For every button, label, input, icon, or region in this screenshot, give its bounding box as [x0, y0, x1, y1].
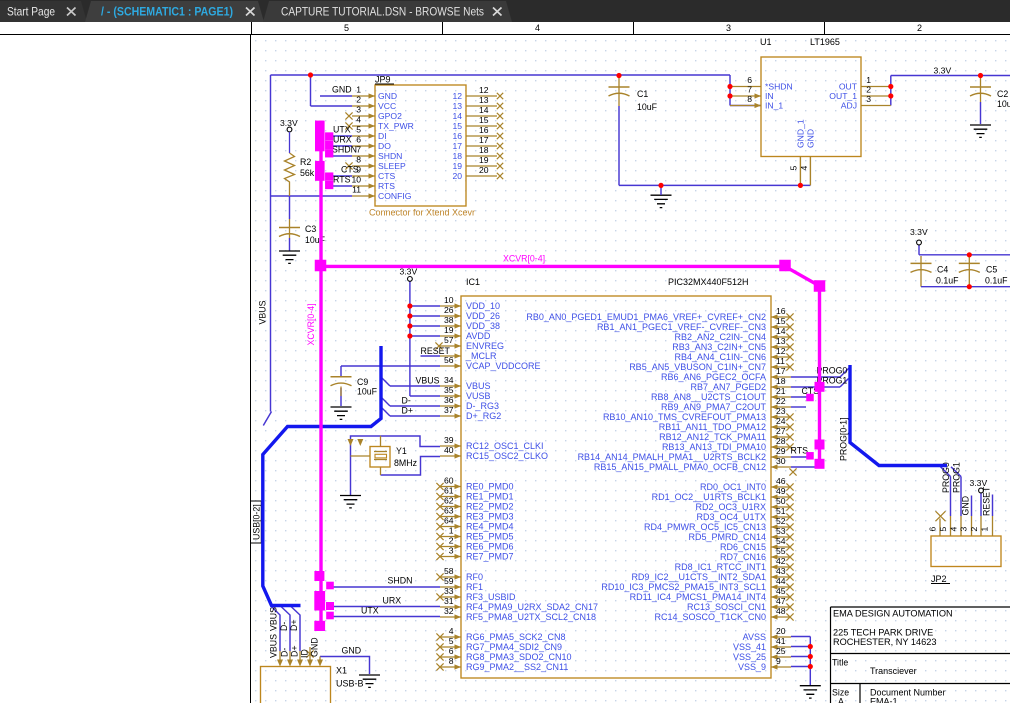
svg-text:IN: IN: [765, 91, 774, 101]
svg-text:URX: URX: [333, 135, 352, 145]
svg-text:JP9: JP9: [375, 75, 391, 85]
svg-text:LT1965: LT1965: [810, 37, 840, 47]
svg-text:RB3_AN3_C2IN+_CN5: RB3_AN3_C2IN+_CN5: [672, 342, 766, 352]
svg-text:RC14_SOSCO_T1CK_CN0: RC14_SOSCO_T1CK_CN0: [654, 612, 766, 622]
svg-text:RC15_OSC2_CLKO: RC15_OSC2_CLKO: [466, 451, 548, 461]
svg-text:RD10_IC3_PMCS2_PMA15_INT3_SCL1: RD10_IC3_PMCS2_PMA15_INT3_SCL1: [601, 582, 766, 592]
svg-text:RC13_SOSCI_CN1: RC13_SOSCI_CN1: [687, 602, 766, 612]
svg-text:DI: DI: [378, 131, 387, 141]
svg-text:12: 12: [776, 346, 786, 356]
svg-text:SHDN: SHDN: [378, 151, 402, 161]
svg-text:C9: C9: [357, 377, 368, 387]
svg-text:USB[0-2]: USB[0-2]: [252, 504, 262, 540]
svg-text:43: 43: [776, 566, 786, 576]
svg-text:RD2_OC3_U1RX: RD2_OC3_U1RX: [695, 502, 766, 512]
svg-text:30: 30: [776, 456, 786, 466]
svg-text:RB12_AN12_TCK_PMA11: RB12_AN12_TCK_PMA11: [659, 432, 766, 442]
svg-text:GND: GND: [332, 85, 352, 95]
svg-text:D-: D-: [280, 648, 290, 657]
svg-text:16: 16: [479, 125, 489, 135]
svg-text:RE4_PMD4: RE4_PMD4: [466, 522, 514, 532]
svg-text:RG6_PMA5_SCK2_CN8: RG6_PMA5_SCK2_CN8: [466, 632, 566, 642]
svg-text:9: 9: [776, 656, 781, 666]
svg-text:RB14_AN14_PMALH_PMA1__U2RTS_BC: RB14_AN14_PMALH_PMA1__U2RTS_BCLK2: [578, 452, 766, 462]
svg-text:33: 33: [444, 586, 454, 596]
svg-text:PROG1: PROG1: [952, 462, 962, 493]
svg-text:/ - (SCHEMATIC1 : PAGE1): / - (SCHEMATIC1 : PAGE1): [101, 5, 233, 19]
svg-text:URX: URX: [383, 596, 402, 606]
svg-text:7: 7: [747, 85, 752, 95]
svg-text:46: 46: [776, 476, 786, 486]
svg-text:15: 15: [452, 121, 462, 131]
svg-text:60: 60: [444, 476, 454, 486]
svg-text:SHDN: SHDN: [388, 576, 413, 586]
svg-text:13: 13: [452, 101, 462, 111]
svg-text:CONFIG: CONFIG: [378, 191, 412, 201]
svg-text:VDD_10: VDD_10: [466, 301, 500, 311]
svg-text:17: 17: [479, 135, 489, 145]
svg-text:39: 39: [444, 435, 454, 445]
svg-text:RF1: RF1: [466, 582, 483, 592]
svg-text:RE3_PMD3: RE3_PMD3: [466, 512, 514, 522]
svg-text:61: 61: [444, 486, 454, 496]
svg-text:D+: D+: [402, 406, 414, 416]
svg-text:18: 18: [776, 376, 786, 386]
svg-text:VCC: VCC: [378, 101, 396, 111]
svg-text:RD0_OC1_INT0: RD0_OC1_INT0: [700, 482, 766, 492]
svg-text:RF3_USBID: RF3_USBID: [466, 592, 516, 602]
svg-text:27: 27: [776, 426, 786, 436]
svg-text:0.1uF: 0.1uF: [936, 276, 959, 286]
svg-text:35: 35: [444, 385, 454, 395]
svg-text:CAPTURE TUTORIAL.DSN - BROWSE: CAPTURE TUTORIAL.DSN - BROWSE Nets: [281, 5, 484, 19]
svg-text:GPO2: GPO2: [378, 111, 402, 121]
svg-text:RD6_CN15: RD6_CN15: [720, 542, 766, 552]
svg-text:2: 2: [449, 536, 454, 546]
svg-text:8: 8: [356, 155, 361, 165]
svg-text:GND: GND: [378, 91, 397, 101]
svg-text:D-: D-: [402, 396, 411, 406]
svg-text:19: 19: [452, 161, 462, 171]
svg-text:22: 22: [776, 396, 786, 406]
svg-text:RD8_IC1_RTCC_INT1: RD8_IC1_RTCC_INT1: [675, 562, 766, 572]
svg-text:7: 7: [356, 145, 361, 155]
svg-text:UTX: UTX: [333, 125, 351, 135]
svg-text:10: 10: [351, 175, 361, 185]
svg-text:3.3V: 3.3V: [970, 478, 988, 488]
svg-text:1: 1: [980, 527, 990, 532]
svg-text:14: 14: [776, 326, 786, 336]
svg-text:VSS_25: VSS_25: [733, 652, 766, 662]
svg-text:PIC32MX440F512H: PIC32MX440F512H: [668, 277, 749, 287]
svg-text:RB5_AN5_VBUSON_C1IN+_CN7: RB5_AN5_VBUSON_C1IN+_CN7: [629, 362, 766, 372]
svg-text:40: 40: [444, 445, 454, 455]
svg-text:18: 18: [452, 151, 462, 161]
svg-text:45: 45: [776, 586, 786, 596]
svg-text:3: 3: [866, 94, 871, 104]
svg-text:DO: DO: [378, 141, 391, 151]
svg-text:RE2_PMD2: RE2_PMD2: [466, 502, 514, 512]
svg-text:RESET: RESET: [421, 346, 451, 356]
svg-text:55: 55: [776, 546, 786, 556]
svg-text:11: 11: [352, 185, 361, 195]
svg-text:41: 41: [776, 636, 786, 646]
svg-text:PROG[0-1]: PROG[0-1]: [839, 417, 849, 461]
svg-text:10: 10: [444, 295, 454, 305]
svg-text:IC1: IC1: [466, 277, 480, 287]
svg-text:RE6_PMD6: RE6_PMD6: [466, 542, 514, 552]
svg-text:3: 3: [449, 546, 454, 556]
svg-text:50: 50: [776, 496, 786, 506]
svg-text:VDD_26: VDD_26: [466, 311, 500, 321]
svg-text:Y1: Y1: [396, 446, 407, 456]
svg-text:3.3V: 3.3V: [910, 227, 928, 237]
svg-text:1: 1: [356, 85, 361, 95]
svg-text:CTS: CTS: [378, 171, 395, 181]
svg-text:51: 51: [776, 506, 786, 516]
svg-text:RB8_AN8__U2CTS_C1OUT: RB8_AN8__U2CTS_C1OUT: [651, 392, 767, 402]
svg-text:225 TECH PARK DRIVE: 225 TECH PARK DRIVE: [833, 628, 933, 638]
svg-text:RB11_AN11_TDO_PMA12: RB11_AN11_TDO_PMA12: [659, 422, 766, 432]
svg-text:XCVR[0-4]: XCVR[0-4]: [306, 303, 316, 345]
svg-text:Title: Title: [832, 658, 848, 668]
svg-text:X1: X1: [336, 666, 347, 676]
svg-text:VSS_41: VSS_41: [733, 642, 766, 652]
svg-text:RTS: RTS: [378, 181, 395, 191]
svg-text:VBUS: VBUS: [269, 634, 279, 658]
svg-text:OUT_1: OUT_1: [829, 91, 857, 101]
svg-text:25: 25: [776, 646, 786, 656]
svg-text:R2: R2: [300, 157, 311, 167]
svg-text:RE1_PMD1: RE1_PMD1: [466, 492, 514, 502]
svg-text:3.3V: 3.3V: [934, 66, 952, 76]
svg-text:5: 5: [449, 636, 454, 646]
svg-text:8: 8: [747, 94, 752, 104]
svg-text:0.1uF: 0.1uF: [985, 276, 1008, 286]
svg-text:CTS: CTS: [341, 165, 359, 175]
svg-text:6: 6: [449, 646, 454, 656]
svg-text:ENVREG: ENVREG: [466, 341, 504, 351]
svg-text:RD1_OC2__U1RTS_BCLK1: RD1_OC2__U1RTS_BCLK1: [652, 492, 766, 502]
svg-text:58: 58: [444, 566, 454, 576]
svg-text:31: 31: [444, 596, 454, 606]
svg-text:36: 36: [444, 395, 454, 405]
svg-text:C4: C4: [937, 265, 948, 275]
svg-text:C2: C2: [997, 89, 1008, 99]
svg-text:RE0_PMD0: RE0_PMD0: [466, 482, 514, 492]
svg-text:4: 4: [449, 626, 454, 636]
svg-text:D-_RG3: D-_RG3: [466, 401, 499, 411]
svg-text:RTS: RTS: [333, 175, 351, 185]
svg-text:3: 3: [356, 105, 361, 115]
svg-text:RTS: RTS: [791, 446, 809, 456]
svg-text:ADJ: ADJ: [841, 101, 857, 111]
svg-text:IN_1: IN_1: [765, 101, 783, 111]
svg-text:RD9_IC2__U1CTS__INT2_SDA1: RD9_IC2__U1CTS__INT2_SDA1: [631, 572, 766, 582]
svg-text:RD3_OC4_U1TX: RD3_OC4_U1TX: [696, 512, 766, 522]
svg-text:*SHDN: *SHDN: [765, 82, 793, 92]
svg-text:5: 5: [938, 527, 948, 532]
svg-text:18: 18: [479, 145, 489, 155]
svg-text:26: 26: [444, 305, 454, 315]
svg-text:OUT: OUT: [839, 82, 858, 92]
svg-text:4: 4: [356, 115, 361, 125]
svg-text:12: 12: [452, 91, 462, 101]
svg-text:34: 34: [444, 375, 454, 385]
svg-text:RD4_PMWR_OC5_IC5_CN13: RD4_PMWR_OC5_IC5_CN13: [644, 522, 766, 532]
svg-text:ID: ID: [300, 649, 310, 658]
svg-text:RC12_OSC1_CLKI: RC12_OSC1_CLKI: [466, 441, 544, 451]
svg-text:UTX: UTX: [361, 606, 379, 616]
svg-text:RB4_AN4_C1IN-_CN6: RB4_AN4_C1IN-_CN6: [674, 352, 766, 362]
svg-text:VBUS: VBUS: [416, 376, 440, 386]
svg-text:56: 56: [444, 355, 454, 365]
svg-text:1: 1: [449, 526, 454, 536]
svg-text:RG9_PMA2__SS2_CN11: RG9_PMA2__SS2_CN11: [466, 662, 568, 672]
svg-text:Transciever: Transciever: [870, 666, 917, 676]
svg-text:4: 4: [799, 166, 809, 171]
svg-text:TX_PWR: TX_PWR: [378, 121, 414, 131]
svg-text:13: 13: [776, 336, 786, 346]
svg-text:AVDD: AVDD: [466, 331, 491, 341]
svg-text:17: 17: [776, 366, 786, 376]
svg-text:5: 5: [356, 125, 361, 135]
svg-text:6: 6: [356, 135, 361, 145]
svg-text:57: 57: [444, 335, 454, 345]
svg-text:VDD_38: VDD_38: [466, 321, 500, 331]
svg-text:6: 6: [928, 527, 938, 532]
svg-text:RB13_AN13_TDI_PMA10: RB13_AN13_TDI_PMA10: [662, 442, 766, 452]
svg-text:GND: GND: [961, 496, 971, 516]
svg-text:2: 2: [866, 85, 871, 95]
svg-text:RB6_AN6_PGEC2_OCFA: RB6_AN6_PGEC2_OCFA: [661, 372, 766, 382]
svg-text:C3: C3: [305, 224, 316, 234]
svg-text:A: A: [838, 697, 844, 704]
svg-text:RF0: RF0: [466, 572, 483, 582]
svg-text:RB1_AN1_PGEC1_VREF-_CVREF-_CN3: RB1_AN1_PGEC1_VREF-_CVREF-_CN3: [597, 322, 766, 332]
svg-text:RG7_PMA4_SDI2_CN9: RG7_PMA4_SDI2_CN9: [466, 642, 562, 652]
svg-text:21: 21: [776, 386, 786, 396]
svg-text:_MCLR: _MCLR: [465, 351, 497, 361]
svg-text:SLEEP: SLEEP: [378, 161, 406, 171]
svg-text:63: 63: [444, 506, 454, 516]
svg-text:62: 62: [444, 496, 454, 506]
svg-text:VCAP_VDDCORE: VCAP_VDDCORE: [466, 361, 541, 371]
svg-text:D+: D+: [290, 646, 300, 658]
svg-text:54: 54: [776, 536, 786, 546]
svg-text:32: 32: [444, 606, 454, 616]
svg-text:10uF: 10uF: [637, 102, 658, 112]
svg-text:1: 1: [866, 75, 871, 85]
svg-text:20: 20: [479, 165, 489, 175]
svg-text:44: 44: [776, 576, 786, 586]
svg-text:EMA-1: EMA-1: [870, 697, 898, 704]
svg-text:19: 19: [479, 155, 489, 165]
svg-text:C1: C1: [637, 89, 648, 99]
svg-text:38: 38: [444, 315, 454, 325]
svg-text:Start Page: Start Page: [7, 5, 55, 19]
svg-text:28: 28: [776, 436, 786, 446]
svg-text:42: 42: [776, 556, 786, 566]
svg-text:D+: D+: [289, 620, 299, 632]
svg-text:RD7_CN16: RD7_CN16: [720, 552, 766, 562]
svg-text:8: 8: [449, 656, 454, 666]
svg-text:RD5_PMRD_CN14: RD5_PMRD_CN14: [688, 532, 766, 542]
svg-text:14: 14: [479, 105, 489, 115]
svg-text:49: 49: [776, 486, 786, 496]
svg-text:6: 6: [747, 75, 752, 85]
svg-text:RB15_AN15_PMALL_PMA0_OCFB_CN12: RB15_AN15_PMALL_PMA0_OCFB_CN12: [594, 462, 766, 472]
svg-text:VBUS: VBUS: [269, 607, 279, 631]
svg-text:EMA DESIGN AUTOMATION: EMA DESIGN AUTOMATION: [833, 609, 953, 619]
svg-text:59: 59: [444, 576, 454, 586]
svg-text:29: 29: [776, 446, 786, 456]
svg-text:XCVR[0-4]: XCVR[0-4]: [503, 254, 545, 264]
svg-text:RB7_AN7_PGED2: RB7_AN7_PGED2: [690, 382, 766, 392]
svg-text:24: 24: [776, 416, 786, 426]
svg-text:RF4_PMA9_U2RX_SDA2_CN17: RF4_PMA9_U2RX_SDA2_CN17: [466, 602, 598, 612]
svg-text:2: 2: [356, 95, 361, 105]
svg-text:52: 52: [776, 516, 786, 526]
svg-text:15: 15: [776, 316, 786, 326]
svg-text:RD11_IC4_PMCS1_PMA14_INT4: RD11_IC4_PMCS1_PMA14_INT4: [630, 592, 766, 602]
svg-text:5: 5: [789, 166, 799, 171]
svg-text:VBUS: VBUS: [258, 300, 268, 324]
svg-text:16: 16: [452, 131, 462, 141]
svg-text:VSS_9: VSS_9: [738, 662, 766, 672]
svg-text:RB0_AN0_PGED1_EMUD1_PMA6_VREF+: RB0_AN0_PGED1_EMUD1_PMA6_VREF+_CVREF+_CN…: [526, 312, 766, 322]
svg-text:GND: GND: [342, 646, 362, 656]
svg-text:8MHz: 8MHz: [394, 458, 417, 468]
svg-text:3: 3: [959, 527, 969, 532]
svg-text:VUSB: VUSB: [466, 391, 491, 401]
svg-text:RF5_PMA8_U2TX_SCL2_CN18: RF5_PMA8_U2TX_SCL2_CN18: [466, 612, 596, 622]
svg-text:D+_RG2: D+_RG2: [466, 411, 501, 421]
svg-text:23: 23: [776, 406, 786, 416]
svg-text:15: 15: [479, 115, 489, 125]
svg-text:16: 16: [776, 306, 786, 316]
svg-text:20: 20: [452, 171, 462, 181]
svg-text:RB9_AN9_PMA7_C2OUT: RB9_AN9_PMA7_C2OUT: [661, 402, 767, 412]
svg-text:13: 13: [479, 95, 489, 105]
svg-text:37: 37: [444, 405, 454, 415]
svg-text:14: 14: [452, 111, 462, 121]
svg-text:20: 20: [776, 626, 786, 636]
svg-text:SHDN: SHDN: [332, 145, 357, 155]
svg-text:17: 17: [452, 141, 462, 151]
svg-text:GND_1: GND_1: [796, 119, 806, 148]
svg-text:USB-B: USB-B: [336, 679, 364, 689]
svg-text:19: 19: [444, 325, 454, 335]
svg-text:ROCHESTER, NY 14623: ROCHESTER, NY 14623: [833, 637, 937, 647]
svg-text:56k: 56k: [300, 168, 315, 178]
svg-text:2: 2: [969, 527, 979, 532]
svg-text:AVSS: AVSS: [743, 632, 766, 642]
svg-text:RESET: RESET: [982, 486, 992, 516]
svg-text:47: 47: [776, 596, 786, 606]
svg-text:53: 53: [776, 526, 786, 536]
svg-text:VBUS: VBUS: [466, 381, 491, 391]
svg-text:4: 4: [948, 527, 958, 532]
svg-text:12: 12: [479, 85, 489, 95]
svg-text:Connector for Xtend Xcevr: Connector for Xtend Xcevr: [369, 208, 475, 218]
svg-text:D-: D-: [279, 622, 289, 631]
svg-text:11: 11: [776, 356, 785, 366]
svg-text:JP2: JP2: [931, 574, 947, 584]
svg-text:48: 48: [776, 606, 786, 616]
svg-text:RB2_AN2_C2IN-_CN4: RB2_AN2_C2IN-_CN4: [674, 332, 766, 342]
svg-text:U1: U1: [760, 37, 772, 47]
svg-text:10uF: 10uF: [997, 99, 1010, 109]
svg-text:RB10_AN10_TMS_CVREFOUT_PMA13: RB10_AN10_TMS_CVREFOUT_PMA13: [603, 412, 766, 422]
svg-text:GND: GND: [310, 637, 320, 657]
svg-text:10uF: 10uF: [357, 387, 378, 397]
svg-text:RE5_PMD5: RE5_PMD5: [466, 532, 514, 542]
svg-text:RG8_PMA3_SDO2_CN10: RG8_PMA3_SDO2_CN10: [466, 652, 572, 662]
svg-text:3.3V: 3.3V: [280, 118, 298, 128]
svg-text:64: 64: [444, 516, 454, 526]
svg-text:RE7_PMD7: RE7_PMD7: [466, 552, 514, 562]
svg-text:C5: C5: [986, 265, 997, 275]
svg-text:GND: GND: [806, 129, 816, 148]
